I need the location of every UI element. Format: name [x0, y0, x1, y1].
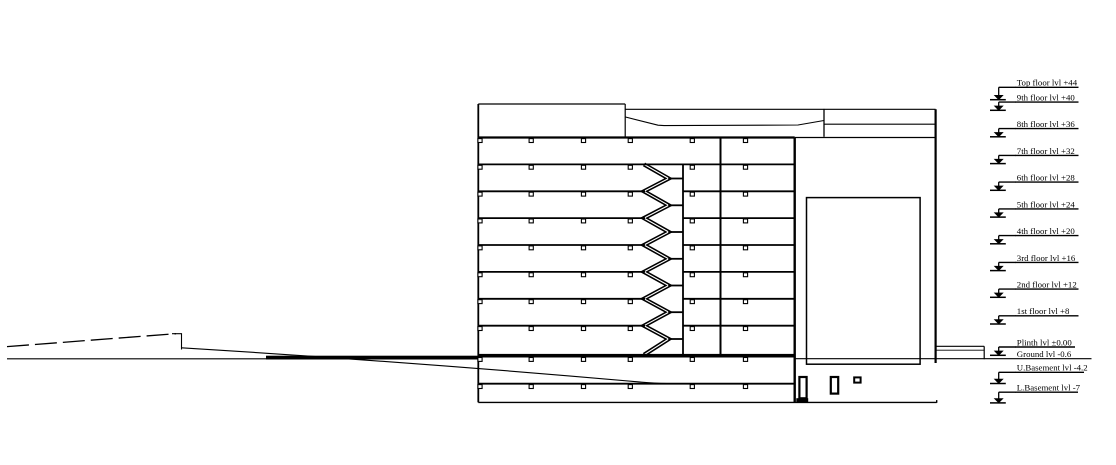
upper basement floor slab [478, 383, 794, 385]
lower basement floor slab [478, 401, 936, 403]
svg-text:L.Basement lvl -7: L.Basement lvl -7 [1017, 383, 1081, 393]
floor slab 2nd floor left part [478, 298, 645, 300]
basement ramp line from street down to upper basement [182, 348, 675, 384]
half-level landing slab stub 7 [668, 338, 683, 340]
svg-text:9th floor lvl +40: 9th floor lvl +40 [1017, 93, 1076, 103]
roof slab line (8th floor +36) [478, 136, 794, 138]
half-level landing slab stub 5 [668, 285, 683, 287]
level marker U.Basement lvl -4.2 [990, 363, 1088, 384]
svg-text:5th floor lvl +24: 5th floor lvl +24 [1017, 199, 1076, 209]
floor slab right part [683, 217, 795, 219]
svg-text:8th floor lvl +36: 8th floor lvl +36 [1017, 119, 1076, 129]
svg-text:Top floor lvl +44: Top floor lvl +44 [1017, 78, 1078, 88]
svg-text:Ground lvl -0.6: Ground lvl -0.6 [1017, 349, 1072, 359]
floor slab 7th floor left part [478, 163, 683, 165]
level marker Plinth lvl ±0.00 [990, 337, 1075, 355]
svg-text:4th floor lvl +20: 4th floor lvl +20 [1017, 226, 1076, 236]
level marker 3rd floor lvl +16 [990, 253, 1079, 271]
building left wall [477, 104, 479, 402]
ground line left segment [7, 358, 478, 360]
half-level landing slab stub 6 [668, 311, 683, 313]
entrance platform right of tower [936, 345, 985, 347]
interior wall x=720 [720, 138, 722, 357]
level marker Ground lvl -0.6 [1017, 349, 1072, 359]
half-level landing slab stub 2 [668, 204, 683, 206]
level marker 4th floor lvl +20 [990, 226, 1079, 244]
floor slab right part [683, 190, 795, 192]
floor slab right part [683, 325, 795, 327]
canopy profile line between roof boxes [626, 117, 825, 126]
level marker 1st floor lvl +8 [990, 306, 1079, 324]
penthouse right edge [624, 104, 626, 137]
half-level landing slab stub 1 [668, 178, 683, 180]
floor slab right part [683, 298, 795, 300]
tower parapet top line [625, 108, 935, 110]
level marker 6th floor lvl +28 [990, 173, 1079, 191]
svg-text:7th floor lvl +32: 7th floor lvl +32 [1017, 146, 1075, 156]
svg-text:1st floor lvl +8: 1st floor lvl +8 [1017, 306, 1070, 316]
door opening 1 with filled threshold [799, 377, 806, 398]
floor slab right part [683, 271, 795, 273]
svg-text:Plinth lvl ±0.00: Plinth lvl ±0.00 [1017, 337, 1073, 347]
building right edge wall [794, 138, 796, 403]
right roof box left edge [823, 109, 825, 137]
large interior rectangle (lift core) [807, 198, 921, 365]
small opening 3 [854, 377, 860, 382]
floor slab right part [683, 244, 795, 246]
thick ground slab band outside building [266, 356, 478, 360]
floor slab right part [683, 163, 795, 165]
continuous split-level parking ramp zigzag [644, 164, 669, 354]
floor slab 6th floor left part [478, 190, 645, 192]
ground line right segment [795, 358, 1092, 360]
half-level landing slab stub 4 [668, 258, 683, 260]
level marker 5th floor lvl +24 [990, 199, 1079, 217]
level marker 7th floor lvl +32 [990, 146, 1079, 164]
floor slab 3rd floor left part [478, 271, 645, 273]
level marker L.Basement lvl -7 [990, 383, 1081, 404]
interior half-level wall x=683 [682, 164, 684, 356]
penthouse box top [478, 103, 625, 105]
dashed site boundary line sloping up to ramp top [7, 334, 176, 347]
svg-text:6th floor lvl +28: 6th floor lvl +28 [1017, 173, 1076, 183]
floor slab 1st floor left part [478, 325, 645, 327]
ground floor slab (plinth level) [478, 354, 794, 358]
level marker 2nd floor lvl +12 [990, 280, 1079, 298]
half-level landing slab stub 3 [668, 231, 683, 233]
door opening 2 [831, 377, 838, 394]
svg-text:U.Basement lvl -4.2: U.Basement lvl -4.2 [1017, 363, 1088, 373]
tower right wall [934, 109, 936, 363]
svg-text:3rd floor lvl +16: 3rd floor lvl +16 [1017, 253, 1076, 263]
level marker 9th floor lvl +40 [990, 93, 1079, 111]
ramp top edge step [172, 333, 182, 335]
right roof box inner line [824, 123, 936, 125]
floor slab 5th floor left part [478, 217, 645, 219]
svg-text:2nd floor lvl +12: 2nd floor lvl +12 [1017, 280, 1077, 290]
level marker 8th floor lvl +36 [990, 119, 1079, 137]
floor slab 4th floor left part [478, 244, 645, 246]
level marker Top floor lvl +44 [990, 78, 1079, 100]
